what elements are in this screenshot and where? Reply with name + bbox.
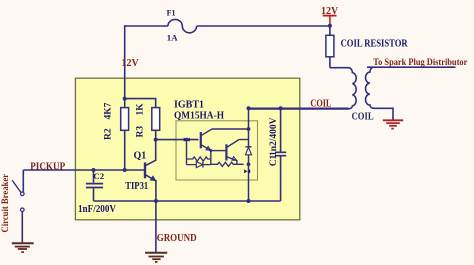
svg-text:1K: 1K (136, 103, 146, 116)
IGBT inner box U1 (176, 121, 258, 180)
resistor internal R-b zigzag (211, 162, 244, 166)
pin G marker (184, 138, 190, 142)
node T1 emitter/T2 base junction (209, 149, 212, 152)
svg-text:To Spark Plug Distributor: To Spark Plug Distributor (373, 58, 468, 68)
svg-text:COIL: COIL (310, 99, 331, 110)
pin E marker (244, 169, 250, 173)
svg-text:1n2/400V: 1n2/400V (269, 117, 279, 156)
svg-text:C2: C2 (93, 171, 104, 181)
svg-text:12V: 12V (122, 58, 140, 69)
node R3/G/collector junction (154, 138, 158, 142)
transistor T2 inside IGBT (226, 140, 239, 161)
node emitter/ground junction (154, 199, 158, 203)
node E rail junction (247, 162, 251, 166)
svg-text:F1: F1 (167, 8, 176, 17)
svg-text:12V: 12V (321, 6, 339, 17)
svg-text:R2: R2 (104, 128, 114, 140)
wire T2 base (211, 150, 226, 152)
svg-text:TIP31: TIP31 (125, 181, 148, 192)
node R2 bottom junction (123, 168, 127, 172)
ground symbol left (12, 243, 34, 252)
node G junction (185, 138, 189, 142)
diode freewheel D1 (245, 147, 251, 155)
node IGBT collector/COIL junction (247, 106, 251, 110)
power port 12V right (323, 16, 337, 26)
svg-text:IGBT1: IGBT1 (174, 100, 204, 111)
resistor R3 (152, 108, 160, 140)
wire ground rail (94, 200, 281, 202)
wire Q1 emitter to ground symbol (155, 180, 157, 252)
wire to R3 top (125, 99, 156, 108)
fuse F1 (168, 19, 197, 32)
resistor internal R-a zigzag (187, 157, 211, 161)
svg-text:PICKUP: PICKUP (30, 162, 65, 173)
transformer secondary winding (365, 67, 455, 120)
svg-text:QM15HA-H: QM15HA-H (174, 111, 224, 122)
wire T2 collector to C rail (239, 139, 249, 141)
transistor T1 inside IGBT (201, 129, 212, 150)
node collector rail junction (247, 127, 251, 131)
diode internal D-a (187, 162, 211, 168)
capacitor C1 (275, 108, 286, 201)
svg-text:1nF/200V: 1nF/200V (78, 204, 117, 215)
svg-text:R3: R3 (136, 126, 146, 138)
wire IGBT E vertical (248, 155, 250, 201)
capacitor C2 (86, 170, 103, 201)
wire COIL net (collector to transformer) (249, 107, 349, 109)
node C1 top junction (279, 106, 283, 110)
svg-text:GROUND: GROUND (157, 233, 197, 244)
svg-text:COIL: COIL (352, 111, 374, 122)
transistor Q1 (145, 140, 156, 181)
transformer primary winding (249, 68, 357, 109)
node IGBT E/ground junction (247, 199, 251, 203)
wire 12V top rail (125, 25, 330, 27)
circuit breaker switch S1 (12, 170, 24, 243)
ground symbol right (383, 120, 403, 128)
yellow module block (75, 78, 299, 220)
wire G net (R3 to IGBT gate) (156, 139, 199, 141)
wire pickup/base rail (23, 169, 145, 171)
wire T1 emitter node1 (210, 150, 212, 164)
svg-text:1A: 1A (167, 33, 178, 43)
wire G drop (186, 140, 188, 165)
node C2 junction (92, 168, 96, 172)
svg-text:Circuit Breaker: Circuit Breaker (0, 174, 10, 233)
wire collector rail (212, 128, 249, 130)
resistor R2 (121, 99, 129, 170)
node coil resistor junction (328, 24, 332, 28)
svg-text:COIL RESISTOR: COIL RESISTOR (341, 39, 409, 50)
svg-text:4K7: 4K7 (104, 102, 114, 119)
ground symbol center (145, 253, 167, 262)
resistor COIL RESISTOR (326, 26, 334, 68)
wire 12V drop to R2/R3 (124, 25, 126, 98)
svg-text:Q1: Q1 (134, 151, 147, 162)
wire T2 emitter drop (236, 160, 238, 164)
wire IGBT C vertical (248, 108, 250, 147)
node 12V/R2/R3 junction (123, 97, 127, 101)
